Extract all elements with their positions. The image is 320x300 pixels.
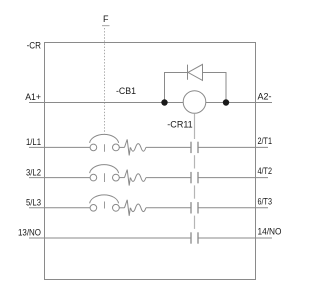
svg-text:6/T3: 6/T3	[258, 196, 273, 206]
svg-text:-CB1: -CB1	[116, 86, 136, 96]
svg-text:1/L1: 1/L1	[26, 137, 41, 147]
svg-text:2/T1: 2/T1	[258, 136, 273, 146]
svg-text:4/T2: 4/T2	[258, 166, 273, 176]
svg-text:A2-: A2-	[258, 92, 272, 102]
svg-text:F: F	[103, 14, 109, 24]
svg-text:13/NO: 13/NO	[18, 228, 41, 238]
svg-text:3/L2: 3/L2	[26, 167, 41, 177]
svg-text:A1+: A1+	[25, 92, 41, 102]
svg-text:14/NO: 14/NO	[258, 227, 282, 237]
svg-text:-CR11: -CR11	[167, 120, 192, 130]
svg-text:5/L3: 5/L3	[26, 198, 41, 208]
svg-text:-CR: -CR	[27, 41, 42, 51]
